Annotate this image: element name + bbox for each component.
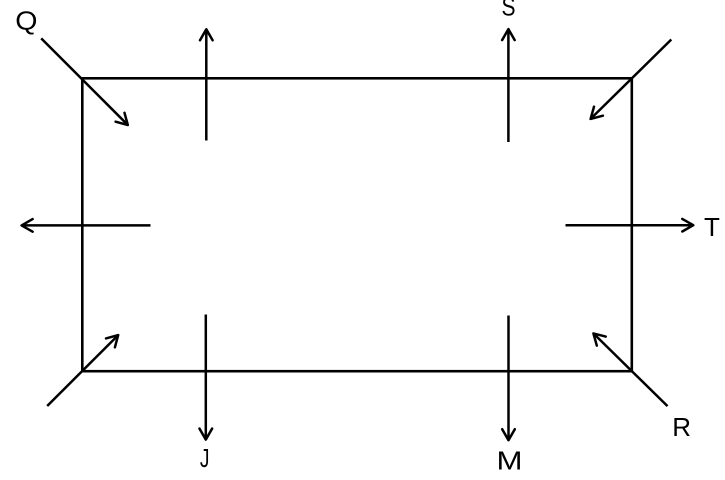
arrow Q inward across top-left corner (points down-right) — [41, 38, 128, 125]
arrow outward left across left edge (unlabeled) — [22, 224, 151, 227]
svg-text:T: T — [704, 212, 720, 242]
arrow R inward across bottom-right corner (points up-left) — [593, 333, 667, 406]
svg-text:S: S — [502, 0, 516, 22]
svg-text:Q: Q — [15, 6, 37, 36]
arrow inward across top-right corner (points down-left) — [591, 40, 672, 119]
arrow S outward up across top edge (right) — [507, 29, 510, 142]
rectangle boundary — [82, 78, 632, 371]
svg-text:R: R — [672, 412, 691, 442]
arrow M outward down across bottom edge (right) — [507, 316, 510, 441]
arrow outward up across top edge (left, unlabeled) — [205, 29, 208, 140]
svg-text:M: M — [497, 446, 523, 476]
arrow inward across bottom-left corner (points up-right) — [47, 335, 118, 406]
svg-text:J: J — [200, 443, 210, 473]
arrow T outward right across right edge — [566, 224, 694, 227]
arrow J outward down across bottom edge (left) — [205, 315, 208, 440]
